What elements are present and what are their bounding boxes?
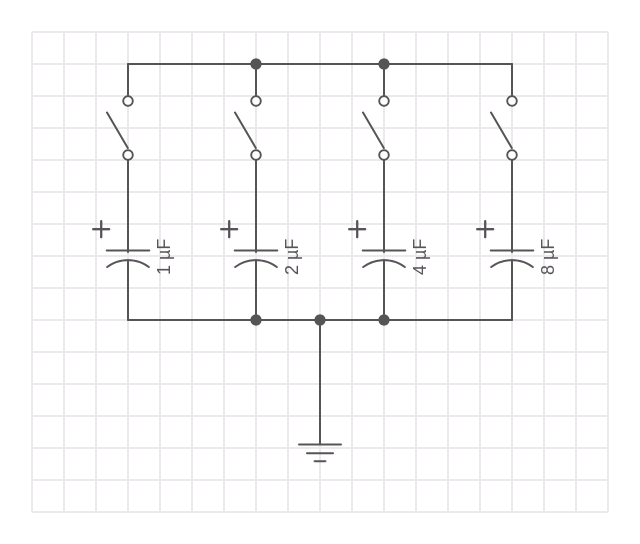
svg-text:2 µF: 2 µF bbox=[282, 239, 302, 275]
svg-text:8 µF: 8 µF bbox=[538, 239, 558, 275]
label C3 value 4 uF bbox=[410, 239, 430, 275]
svg-text:4 µF: 4 µF bbox=[410, 239, 430, 275]
node junction top bus / branch3 bbox=[378, 58, 389, 69]
switch S1 bbox=[107, 96, 133, 160]
node junction bottom bus / branch3 bbox=[378, 314, 389, 325]
label C1 value 1 uF bbox=[154, 239, 174, 275]
node junction bottom bus / ground bbox=[314, 314, 325, 325]
capacitor C2 bbox=[221, 221, 277, 267]
wire branch1 top bbox=[127, 64, 129, 95]
capacitor C3 bbox=[349, 221, 405, 267]
wire S1 to C1 bbox=[127, 161, 129, 252]
capacitor C4 bbox=[477, 221, 533, 267]
label C4 value 8 uF bbox=[538, 239, 558, 275]
wire C4 to bottom bus bbox=[511, 260, 513, 320]
wire S4 to C4 bbox=[511, 161, 513, 252]
wire branch4 top bbox=[511, 64, 513, 95]
wire S3 to C3 bbox=[383, 161, 385, 252]
wire branch2 top bbox=[255, 64, 257, 95]
switch S4 bbox=[491, 96, 517, 160]
wire branch3 top bbox=[383, 64, 385, 95]
wire ground stem bbox=[319, 320, 321, 445]
wire C3 to bottom bus bbox=[383, 260, 385, 320]
switch S3 bbox=[363, 96, 389, 160]
label C2 value 2 uF bbox=[282, 239, 302, 275]
ground bbox=[299, 445, 341, 462]
node junction top bus / branch2 bbox=[250, 58, 261, 69]
svg-text:1 µF: 1 µF bbox=[154, 239, 174, 275]
node junction bottom bus / branch2 bbox=[250, 314, 261, 325]
capacitor C1 bbox=[93, 221, 149, 267]
wire S2 to C2 bbox=[255, 161, 257, 252]
wire C1 to bottom bus bbox=[127, 260, 129, 320]
wire bottom bus bbox=[128, 319, 512, 321]
wire C2 to bottom bus bbox=[255, 260, 257, 320]
switch S2 bbox=[235, 96, 261, 160]
wire top bus bbox=[128, 63, 512, 65]
